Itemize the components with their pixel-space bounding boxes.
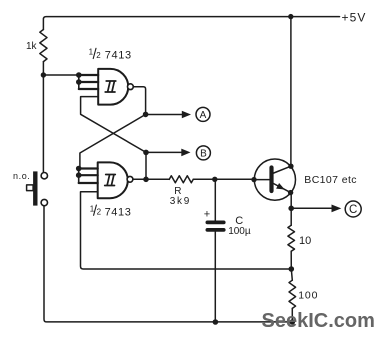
wire: R3 to feedback tap to R4 [291, 251, 292, 280]
resistor R2 3k9 (zigzag) [169, 176, 193, 183]
wire: collector to +5V rail [290, 17, 292, 167]
node A circle [196, 107, 210, 121]
junction: R4 to bottom rail [290, 319, 296, 325]
op-amp U1a NAND gate body (1/2 7413) [98, 69, 128, 105]
svg-text:C: C [349, 204, 357, 216]
junction: C1 to bottom rail [213, 319, 219, 325]
junction: U1b input pin1 [76, 166, 82, 172]
symbol: schmitt hysteresis inside U1a [105, 81, 116, 92]
svg-text:B: B [200, 149, 207, 160]
transistor Q1 base bar [269, 168, 273, 192]
resistor R1 1k (zigzag) [40, 30, 47, 62]
svg-text:7413: 7413 [105, 50, 132, 62]
svg-text:10: 10 [299, 235, 311, 247]
svg-text:A: A [200, 110, 207, 121]
wire: R2 to Q1 base [193, 178, 254, 180]
svg-text:2: 2 [96, 51, 101, 60]
wire: cross-couple node A to U1b inputs [80, 114, 146, 168]
label: 1/2 7413 (upper) [89, 48, 132, 62]
junction: node A [143, 112, 149, 118]
junction: capacitor tap [212, 177, 217, 182]
junction: +5V rail corner [288, 14, 293, 19]
wire: top rail from R1 to +5V corner [43, 17, 290, 30]
label: 1/2 7413 (lower) [90, 204, 132, 218]
symbol: schmitt hysteresis inside U1b [105, 175, 116, 186]
resistor R4 100 (zigzag) [289, 280, 296, 308]
transistor Q1 collector lead [273, 166, 291, 173]
wire: U1b input stubs (pins 1,2,3) [79, 169, 98, 184]
transistor Q1 envelope [254, 159, 295, 200]
transistor Q1 base lead [254, 179, 269, 181]
switch S1 top contact [41, 173, 47, 179]
node C circle [345, 201, 361, 217]
wire: +5V stub [291, 16, 340, 18]
capacitor C1 top lead [214, 179, 216, 220]
wire: R4 bottom lead [291, 308, 293, 322]
junction: gate1 input pin2 [76, 79, 82, 85]
junction: node C [288, 206, 294, 212]
junction: collector at envelope [288, 164, 293, 169]
bubble: U1a inverting output [127, 84, 133, 90]
svg-text:100µ: 100µ [228, 226, 251, 237]
label: fraction slash (lower) [94, 205, 97, 215]
svg-text:7413: 7413 [105, 206, 132, 218]
svg-text:2: 2 [97, 208, 102, 217]
svg-text:3k9: 3k9 [170, 196, 191, 207]
wire: emitter down to node C [290, 193, 292, 226]
wire: gate1 input bus [43, 75, 78, 89]
resistor R3 10 (zigzag) [288, 225, 295, 251]
wire: U1b output run to R2 [133, 178, 169, 180]
junction: gate1 input pin1 [76, 72, 82, 78]
capacitor C1 bottom lead [214, 232, 216, 322]
arrow: output A [146, 114, 183, 116]
wire: left rail from R1 to switch top contact [42, 62, 44, 173]
switch S1 bottom contact [41, 199, 47, 205]
transistor Q1 emitter lead with arrow [273, 183, 291, 193]
wire: U1b input tie bus [78, 169, 80, 184]
junction: Q1 base at envelope [251, 177, 256, 182]
wire: U1a output to node A [133, 87, 145, 115]
junction: U1b input pin2 [76, 172, 82, 178]
capacitor C1 plates (100u electrolytic) [207, 220, 223, 224]
junction: node B [143, 150, 149, 156]
junction: left rail / gate1 input tap [41, 72, 46, 77]
arrow: output B [146, 151, 182, 153]
svg-text:n.o.: n.o. [13, 171, 30, 181]
wire: gate1 input stubs (pins 1,2,3) [79, 75, 98, 89]
svg-text:SeekIC.com: SeekIC.com [262, 310, 375, 332]
switch S1 actuator [27, 185, 33, 191]
svg-text:BC107 etc: BC107 etc [304, 174, 357, 186]
label: fraction slash (upper) [93, 48, 96, 58]
arrow: output C [291, 207, 332, 209]
switch S1 plunger bar [33, 171, 37, 205]
wire: node B riser [145, 152, 147, 179]
svg-text:1: 1 [89, 48, 94, 57]
svg-text:100: 100 [298, 289, 318, 301]
wire: cross-couple node B to U1a pin4 [81, 97, 146, 153]
bubble: U1b inverting output [127, 176, 133, 182]
junction: feedback / emitter divider tap [289, 266, 295, 272]
junction: U1b output / riser [143, 177, 149, 183]
wire: switch bottom to bottom rail [44, 206, 292, 322]
wire: U1b pin4 stub and feedback loop from emitter divider [81, 192, 292, 269]
svg-text:1k: 1k [26, 41, 38, 52]
node B circle [196, 146, 210, 160]
junction: emitter at envelope [288, 190, 293, 195]
svg-text:+5V: +5V [342, 11, 367, 25]
op-amp U1b NAND gate body (1/2 7413) [98, 162, 128, 198]
svg-text:+: + [204, 209, 210, 221]
